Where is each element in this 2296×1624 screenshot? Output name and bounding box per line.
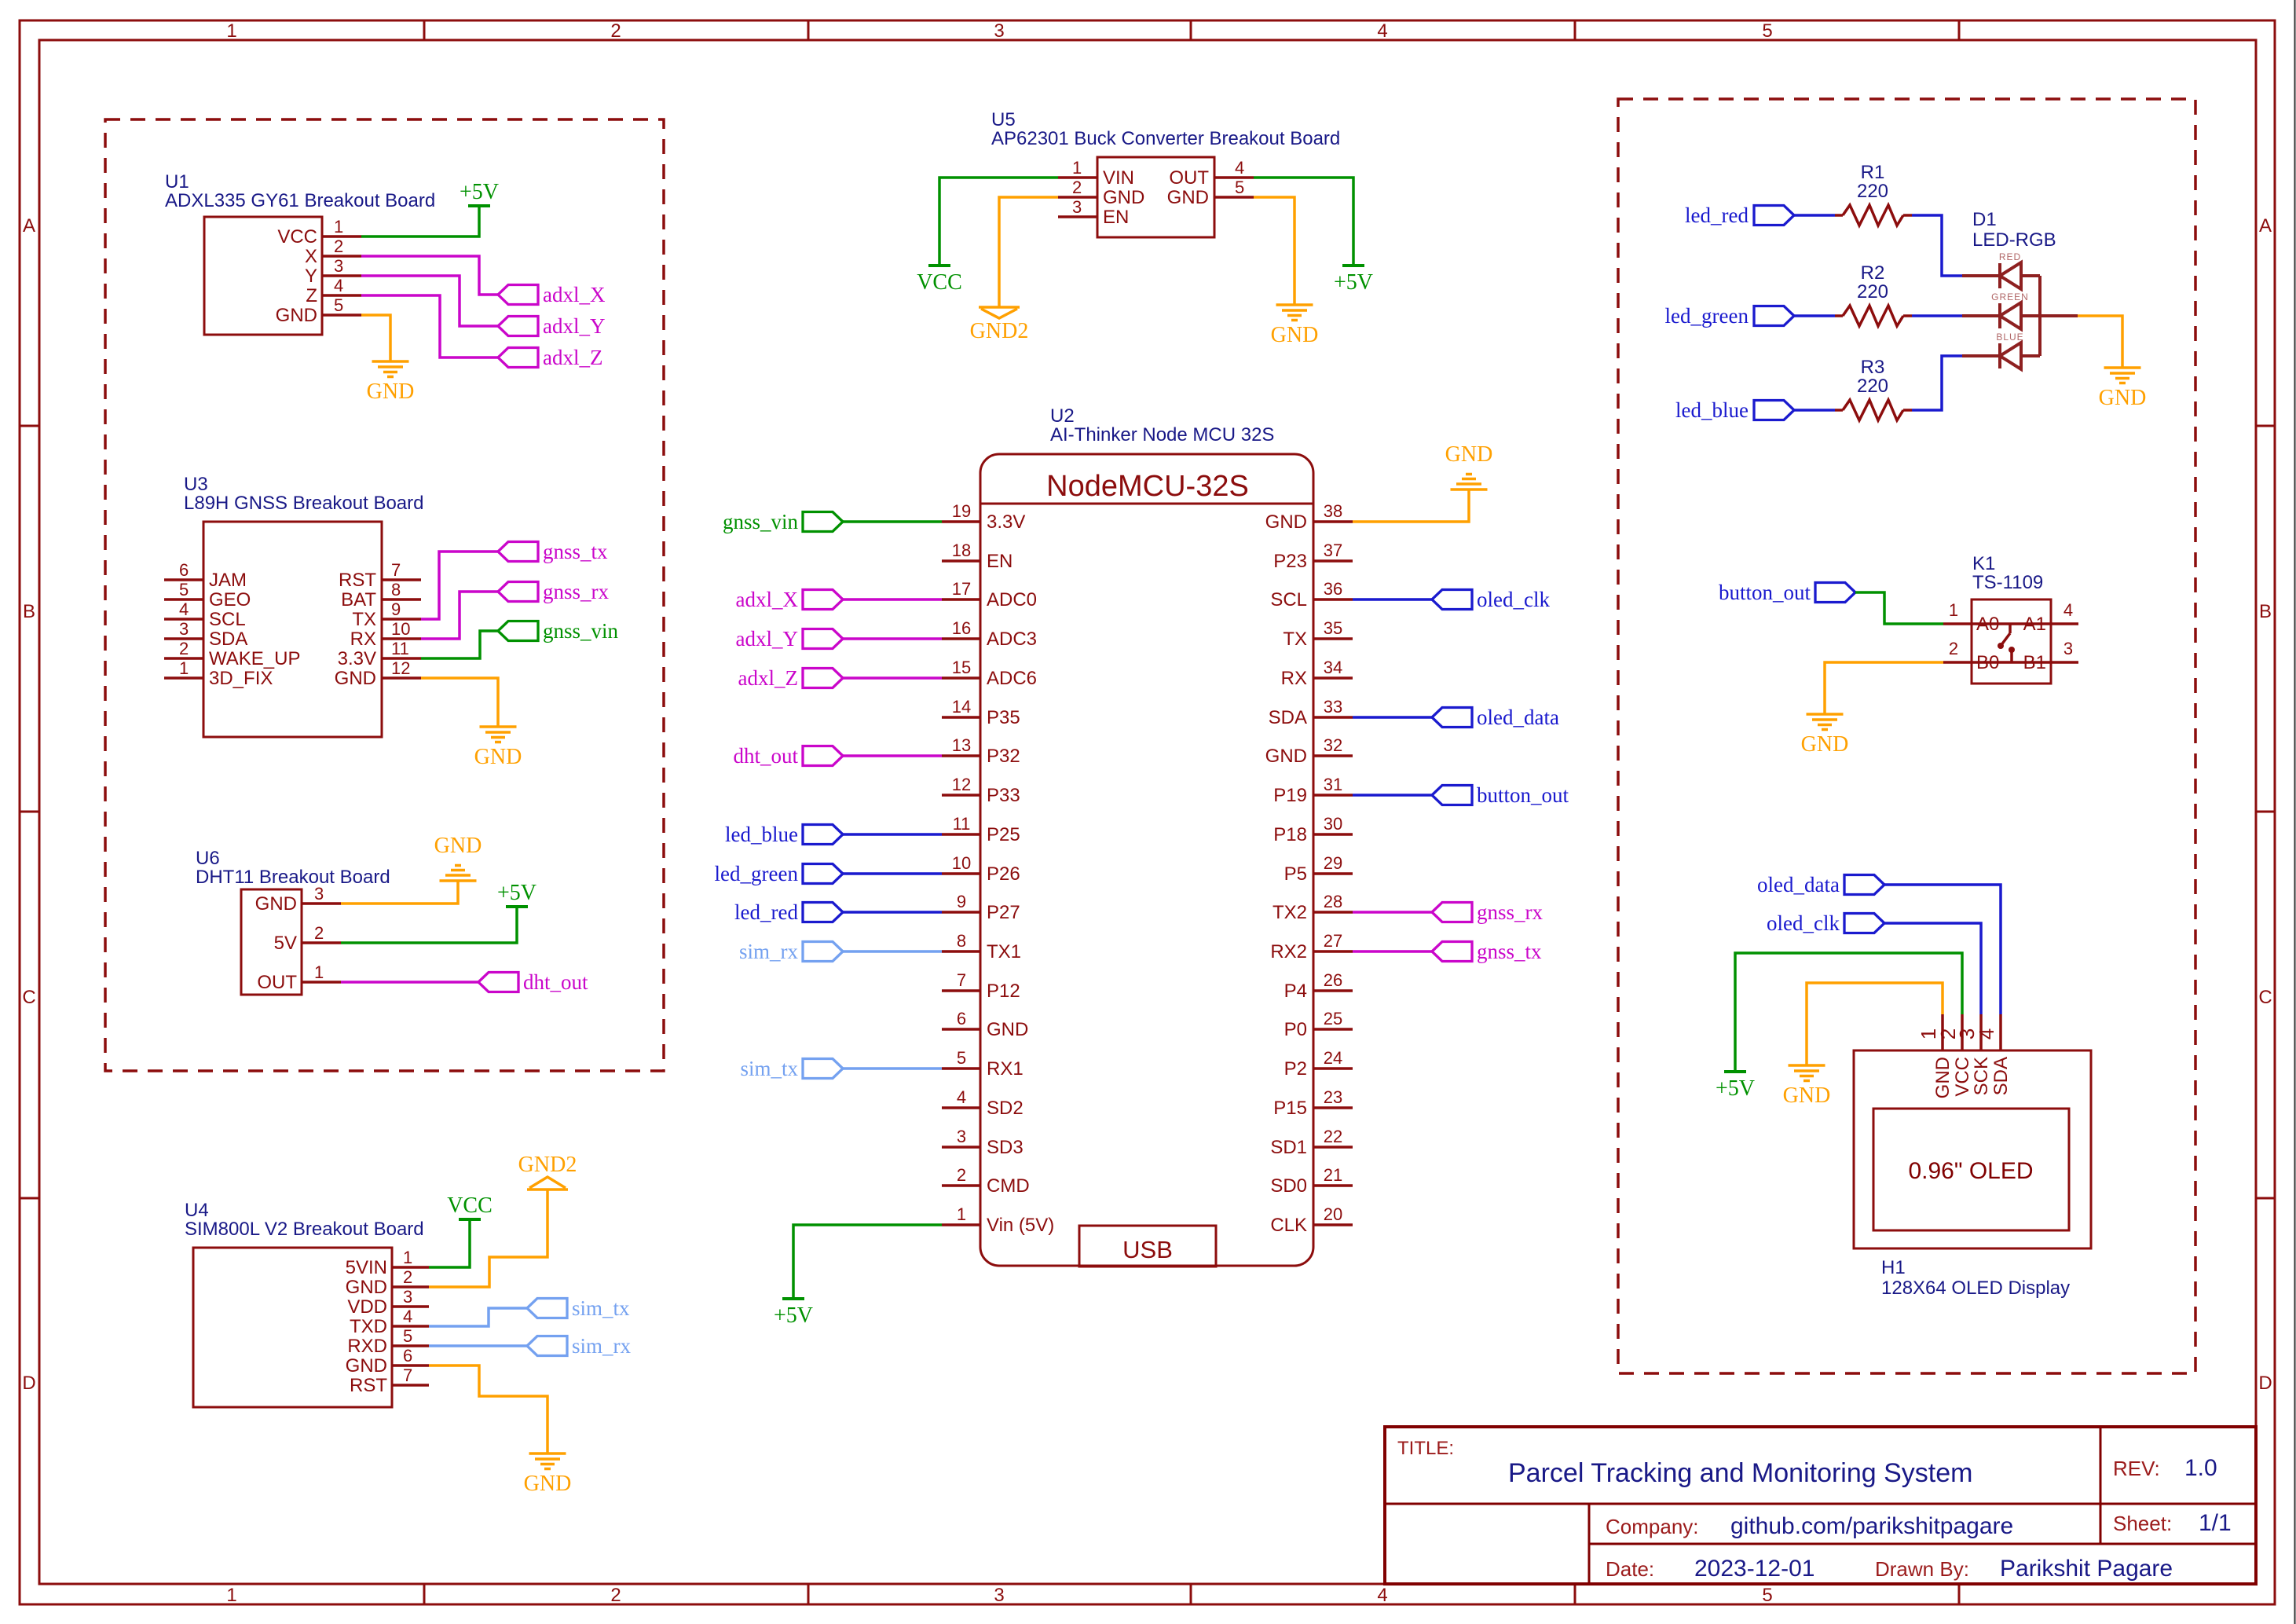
svg-text:BLUE: BLUE xyxy=(1996,332,2023,343)
svg-text:C: C xyxy=(2258,987,2272,1008)
svg-text:TS-1109: TS-1109 xyxy=(1972,572,2043,593)
dashed group box left (sensors) xyxy=(105,119,664,1071)
svg-text:AP62301 Buck Converter Breakou: AP62301 Buck Converter Breakout Board xyxy=(991,128,1340,149)
svg-text:RX1: RX1 xyxy=(987,1058,1023,1080)
svg-text:13: 13 xyxy=(952,735,971,755)
svg-text:VDD: VDD xyxy=(347,1296,387,1318)
wire adxl_Y to U2 xyxy=(843,637,942,640)
svg-text:Parcel Tracking and Monitoring: Parcel Tracking and Monitoring System xyxy=(1508,1458,1972,1488)
svg-text:P12: P12 xyxy=(987,981,1020,1002)
svg-text:led_blue: led_blue xyxy=(725,823,798,846)
svg-text:TX: TX xyxy=(1283,629,1307,650)
wire U3.RX to gnss_rx xyxy=(421,592,498,639)
svg-text:6: 6 xyxy=(957,1009,966,1028)
svg-text:P27: P27 xyxy=(987,902,1020,923)
svg-text:GND: GND xyxy=(987,1019,1028,1040)
svg-text:RXD: RXD xyxy=(347,1336,387,1357)
svg-text:H1: H1 xyxy=(1881,1257,1906,1278)
svg-text:SD2: SD2 xyxy=(987,1098,1023,1119)
svg-text:U5: U5 xyxy=(991,109,1016,130)
net flag adxl_X xyxy=(498,285,538,305)
svg-text:NodeMCU-32S: NodeMCU-32S xyxy=(1046,470,1249,503)
svg-text:4: 4 xyxy=(957,1087,966,1107)
svg-text:32: 32 xyxy=(1324,735,1342,755)
wire U1.X to adxl_X xyxy=(361,256,498,295)
svg-text:31: 31 xyxy=(1324,775,1342,794)
ground GND at K1 xyxy=(1807,713,1844,716)
svg-text:SCL: SCL xyxy=(209,609,246,630)
svg-text:14: 14 xyxy=(952,697,971,717)
svg-text:0.96" OLED: 0.96" OLED xyxy=(1908,1158,2033,1184)
svg-text:Company:: Company: xyxy=(1606,1515,1699,1538)
svg-text:TX1: TX1 xyxy=(987,941,1021,962)
svg-text:3: 3 xyxy=(994,20,1004,42)
svg-text:GND: GND xyxy=(1265,511,1307,533)
wire R2 to D1 xyxy=(1912,314,1962,317)
svg-text:1: 1 xyxy=(179,658,189,678)
svg-text:23: 23 xyxy=(1324,1087,1342,1107)
resistor R3 220 xyxy=(1835,357,1912,420)
svg-text:A: A xyxy=(2259,215,2272,236)
svg-text:TXD: TXD xyxy=(350,1316,387,1337)
svg-text:24: 24 xyxy=(1324,1048,1342,1068)
svg-text:2: 2 xyxy=(610,20,621,42)
svg-text:adxl_X: adxl_X xyxy=(736,588,799,611)
ground GND at U1 xyxy=(372,360,409,363)
svg-text:A0: A0 xyxy=(1976,614,1999,635)
display H1 128X64 OLED xyxy=(1854,1050,2091,1248)
svg-text:SD3: SD3 xyxy=(987,1137,1023,1158)
svg-text:220: 220 xyxy=(1857,181,1888,202)
svg-text:github.com/parikshitpagare: github.com/parikshitpagare xyxy=(1730,1513,2013,1539)
svg-text:U3: U3 xyxy=(184,474,208,495)
svg-text:GND: GND xyxy=(335,668,376,689)
svg-text:P18: P18 xyxy=(1273,824,1307,845)
svg-text:gnss_vin: gnss_vin xyxy=(723,510,799,533)
svg-text:CLK: CLK xyxy=(1270,1215,1307,1236)
svg-text:SD1: SD1 xyxy=(1270,1137,1307,1158)
svg-text:2023-12-01: 2023-12-01 xyxy=(1694,1556,1814,1582)
svg-text:4: 4 xyxy=(2063,600,2073,620)
net flag gnss_tx at U2 right xyxy=(1432,942,1472,962)
svg-text:R1: R1 xyxy=(1861,162,1885,183)
wire U3.GND to ground xyxy=(421,678,498,727)
svg-text:+5V: +5V xyxy=(774,1303,813,1328)
svg-text:C: C xyxy=(22,987,35,1008)
svg-text:OUT: OUT xyxy=(257,972,297,993)
svg-text:7: 7 xyxy=(403,1366,412,1385)
svg-text:220: 220 xyxy=(1857,281,1888,302)
svg-text:led_green: led_green xyxy=(1665,304,1749,328)
wire ground to H1.GND xyxy=(1807,983,1943,1065)
wire U1.Z to adxl_Z xyxy=(361,295,498,357)
svg-text:B1: B1 xyxy=(2023,652,2046,673)
wire led_red to R1 xyxy=(1794,214,1835,217)
svg-text:RED: RED xyxy=(1999,251,2021,262)
net flag adxl_Z xyxy=(498,348,538,368)
wire led_red to U2 xyxy=(843,911,942,914)
ground GND at D1 xyxy=(2104,366,2141,369)
svg-text:GND: GND xyxy=(276,305,317,326)
svg-text:RX: RX xyxy=(1281,668,1307,689)
svg-text:3.3V: 3.3V xyxy=(338,648,376,669)
svg-text:+5V: +5V xyxy=(1716,1076,1755,1101)
svg-text:gnss_rx: gnss_rx xyxy=(1477,900,1543,924)
svg-text:dht_out: dht_out xyxy=(523,970,588,994)
svg-text:gnss_tx: gnss_tx xyxy=(543,540,608,563)
svg-text:ADXL335 GY61 Breakout Board: ADXL335 GY61 Breakout Board xyxy=(165,190,435,211)
svg-text:P5: P5 xyxy=(1284,863,1307,885)
power +5V at U5 (below) xyxy=(1342,264,1364,267)
ground GND2 at U5 (triangle down) xyxy=(979,306,1020,309)
svg-text:P19: P19 xyxy=(1273,785,1307,806)
svg-text:VCC: VCC xyxy=(447,1193,493,1218)
svg-text:BAT: BAT xyxy=(341,589,376,610)
svg-text:GND2: GND2 xyxy=(518,1153,577,1177)
svg-text:21: 21 xyxy=(1324,1165,1342,1185)
svg-text:1: 1 xyxy=(957,1204,966,1224)
wire led_green to R2 xyxy=(1794,314,1835,317)
ground GND at U3 xyxy=(480,725,517,728)
wire U6.GND to ground xyxy=(341,881,458,904)
wire led_blue to U2 xyxy=(843,833,942,836)
svg-text:20: 20 xyxy=(1324,1204,1342,1224)
svg-text:ADC0: ADC0 xyxy=(987,589,1037,610)
svg-text:sim_rx: sim_rx xyxy=(572,1334,632,1358)
svg-text:4: 4 xyxy=(1377,1585,1387,1606)
svg-text:P26: P26 xyxy=(987,863,1020,885)
svg-text:A1: A1 xyxy=(2023,614,2046,635)
svg-text:1: 1 xyxy=(403,1248,412,1267)
svg-text:K1: K1 xyxy=(1972,553,1995,574)
svg-text:2: 2 xyxy=(957,1165,966,1185)
svg-text:P2: P2 xyxy=(1284,1058,1307,1080)
svg-text:1: 1 xyxy=(334,217,343,236)
svg-text:5: 5 xyxy=(179,580,189,599)
wire U2 to oled_clk xyxy=(1353,598,1432,601)
wire U2 to gnss_tx xyxy=(1353,950,1432,953)
net flag led_blue at U2 left xyxy=(803,825,843,845)
svg-text:3: 3 xyxy=(994,1585,1004,1606)
power +5V at H1 (below) xyxy=(1724,1070,1746,1073)
net flag gnss_vin at U2 left xyxy=(803,512,843,532)
svg-text:GND: GND xyxy=(1167,187,1209,208)
wire oled_clk to H1.SCK xyxy=(1884,923,1981,1014)
svg-text:adxl_Z: adxl_Z xyxy=(738,666,798,690)
svg-text:GND: GND xyxy=(434,834,482,858)
svg-text:8: 8 xyxy=(957,931,966,951)
wire U5.GND pin5 to ground xyxy=(1254,197,1294,305)
svg-text:VCC: VCC xyxy=(917,270,962,295)
power +5V at U2 (below) xyxy=(782,1297,804,1300)
svg-text:5: 5 xyxy=(1235,178,1244,197)
svg-text:28: 28 xyxy=(1324,892,1342,911)
svg-text:25: 25 xyxy=(1324,1009,1342,1028)
wire sim_rx to U2 xyxy=(843,950,942,953)
svg-text:3: 3 xyxy=(2063,639,2073,658)
svg-text:3: 3 xyxy=(179,619,189,639)
svg-text:led_red: led_red xyxy=(734,900,798,924)
svg-text:SCK: SCK xyxy=(1971,1057,1992,1095)
svg-text:dht_out: dht_out xyxy=(733,744,798,768)
net flag led_red xyxy=(1754,206,1794,225)
net flag gnss_vin xyxy=(498,621,538,641)
svg-text:X: X xyxy=(305,246,317,267)
svg-text:VIN: VIN xyxy=(1103,167,1134,189)
svg-text:R3: R3 xyxy=(1861,357,1885,378)
net flag dht_out at U2 left xyxy=(803,746,843,766)
svg-text:B: B xyxy=(23,601,35,622)
svg-text:USB: USB xyxy=(1122,1236,1173,1263)
svg-text:10: 10 xyxy=(391,619,410,639)
svg-text:GND: GND xyxy=(346,1355,387,1377)
wire U5.GND pin2 to GND2 xyxy=(999,197,1058,307)
net flag sim_rx at U2 left xyxy=(803,942,843,962)
svg-text:U2: U2 xyxy=(1050,405,1075,427)
svg-text:SDA: SDA xyxy=(1269,707,1307,728)
wire gnss_vin to U2 xyxy=(843,520,942,523)
svg-text:18: 18 xyxy=(952,541,971,560)
svg-text:D1: D1 xyxy=(1972,209,1997,230)
svg-text:4: 4 xyxy=(334,276,343,295)
svg-text:2: 2 xyxy=(403,1267,412,1287)
svg-text:SIM800L V2 Breakout Board: SIM800L V2 Breakout Board xyxy=(185,1219,424,1240)
title block xyxy=(1385,1427,2256,1584)
svg-text:GND: GND xyxy=(524,1472,572,1496)
svg-text:GND: GND xyxy=(1932,1057,1954,1098)
svg-text:128X64 OLED Display: 128X64 OLED Display xyxy=(1881,1278,2070,1299)
svg-text:GREEN: GREEN xyxy=(1991,291,2029,302)
svg-text:3: 3 xyxy=(957,1127,966,1146)
net flag led_green xyxy=(1754,306,1794,326)
power VCC at U4 xyxy=(459,1218,481,1221)
svg-text:REV:: REV: xyxy=(2113,1457,2160,1480)
svg-text:GND: GND xyxy=(1103,187,1144,208)
svg-text:sim_rx: sim_rx xyxy=(739,940,799,963)
wire K1.B0 to ground xyxy=(1825,662,1943,714)
svg-text:3: 3 xyxy=(1072,197,1082,217)
wire U1.Y to adxl_Y xyxy=(361,276,498,326)
svg-text:U1: U1 xyxy=(165,171,189,192)
svg-text:5: 5 xyxy=(1762,1585,1772,1606)
svg-text:26: 26 xyxy=(1324,970,1342,990)
svg-text:17: 17 xyxy=(952,579,971,599)
net flag adxl_Y xyxy=(498,317,538,336)
wire led_green to U2 xyxy=(843,872,942,875)
net flag oled_data at H1 xyxy=(1844,875,1884,895)
svg-text:5V: 5V xyxy=(274,933,297,954)
svg-text:GND2: GND2 xyxy=(970,319,1029,343)
svg-text:3: 3 xyxy=(334,256,343,276)
wire U3.3.3V to gnss_vin xyxy=(421,631,498,658)
svg-text:L89H GNSS Breakout Board: L89H GNSS Breakout Board xyxy=(184,493,424,514)
svg-text:9: 9 xyxy=(391,599,401,619)
wire D1 common to ground xyxy=(2078,316,2122,368)
svg-text:led_green: led_green xyxy=(715,862,799,885)
svg-text:6: 6 xyxy=(179,560,189,580)
net flag gnss_rx xyxy=(498,582,538,602)
svg-text:TITLE:: TITLE: xyxy=(1397,1438,1454,1459)
wire U2 to oled_data xyxy=(1353,716,1432,719)
svg-text:35: 35 xyxy=(1324,618,1342,638)
svg-text:D: D xyxy=(22,1373,35,1394)
svg-text:1: 1 xyxy=(1949,600,1958,620)
svg-text:10: 10 xyxy=(952,853,971,873)
svg-text:B0: B0 xyxy=(1976,652,1999,673)
resistor R2 220 xyxy=(1835,262,1912,326)
svg-text:WAKE_UP: WAKE_UP xyxy=(209,648,300,669)
svg-text:15: 15 xyxy=(952,658,971,677)
svg-text:ADC6: ADC6 xyxy=(987,668,1037,689)
svg-text:ADC3: ADC3 xyxy=(987,629,1037,650)
power +5V at U1 xyxy=(361,206,479,236)
svg-text:adxl_Y: adxl_Y xyxy=(736,627,798,651)
svg-text:4: 4 xyxy=(1377,20,1387,42)
svg-text:4: 4 xyxy=(179,599,189,619)
svg-text:U6: U6 xyxy=(196,848,220,869)
svg-text:11: 11 xyxy=(391,639,409,658)
ground GND at U2 top (inverted) xyxy=(1451,488,1488,491)
svg-text:RST: RST xyxy=(339,570,376,591)
net flag adxl_X at U2 left xyxy=(803,590,843,610)
wire U4.TXD to sim_tx xyxy=(429,1308,527,1326)
net flag button_out at U2 right xyxy=(1432,786,1472,805)
svg-text:OUT: OUT xyxy=(1169,167,1209,189)
svg-text:38: 38 xyxy=(1324,501,1342,521)
svg-text:GND: GND xyxy=(474,745,522,769)
svg-text:adxl_X: adxl_X xyxy=(543,283,606,306)
svg-text:GND: GND xyxy=(2099,386,2147,410)
svg-text:2: 2 xyxy=(1072,178,1082,197)
svg-text:+5V: +5V xyxy=(460,180,499,204)
svg-text:5: 5 xyxy=(957,1048,966,1068)
svg-text:B: B xyxy=(2259,601,2272,622)
svg-text:CMD: CMD xyxy=(987,1175,1030,1197)
svg-text:RST: RST xyxy=(350,1375,387,1396)
svg-text:U4: U4 xyxy=(185,1200,209,1221)
svg-text:+5V: +5V xyxy=(1334,270,1373,295)
svg-text:GND: GND xyxy=(1783,1083,1831,1108)
resistor R1 220 xyxy=(1835,162,1912,225)
svg-text:A: A xyxy=(23,215,35,236)
svg-text:TX: TX xyxy=(352,609,376,630)
wire dht_out to U2 xyxy=(843,754,942,757)
svg-text:SDA: SDA xyxy=(1990,1057,2012,1095)
wire U5.OUT to +5V xyxy=(1254,178,1353,266)
wire U4.GND pin6 to ground xyxy=(429,1366,547,1454)
svg-text:P33: P33 xyxy=(987,785,1020,806)
svg-text:oled_clk: oled_clk xyxy=(1477,588,1550,611)
svg-text:GND: GND xyxy=(1265,746,1307,767)
svg-text:P4: P4 xyxy=(1284,981,1307,1002)
svg-text:button_out: button_out xyxy=(1719,581,1811,604)
svg-text:EN: EN xyxy=(1103,207,1129,228)
svg-text:Drawn By:: Drawn By: xyxy=(1875,1557,1969,1581)
svg-text:oled_data: oled_data xyxy=(1757,873,1840,896)
net flag oled_clk at H1 xyxy=(1844,914,1884,933)
svg-text:3D_FIX: 3D_FIX xyxy=(209,668,273,689)
svg-text:2: 2 xyxy=(610,1585,621,1606)
net flag oled_data at U2 right xyxy=(1432,708,1472,728)
net flag gnss_rx at U2 right xyxy=(1432,903,1472,922)
svg-text:4: 4 xyxy=(1235,158,1244,178)
svg-text:5VIN: 5VIN xyxy=(346,1257,387,1278)
svg-text:P25: P25 xyxy=(987,824,1020,845)
svg-text:+5V: +5V xyxy=(497,881,536,905)
net flag led_green at U2 left xyxy=(803,864,843,884)
net flag gnss_tx xyxy=(498,542,538,562)
svg-text:5: 5 xyxy=(1762,20,1772,42)
wire U2.GND pin38 to ground xyxy=(1353,489,1469,522)
svg-text:2: 2 xyxy=(334,236,343,256)
dashed group box right (indicators) xyxy=(1618,99,2195,1373)
svg-text:36: 36 xyxy=(1324,579,1342,599)
svg-text:adxl_Z: adxl_Z xyxy=(543,346,602,369)
svg-text:1: 1 xyxy=(226,1585,236,1606)
svg-text:30: 30 xyxy=(1324,814,1342,834)
wire R1 to D1 xyxy=(1912,215,1962,276)
svg-text:7: 7 xyxy=(957,970,966,990)
svg-text:P0: P0 xyxy=(1284,1019,1307,1040)
wire +5V to H1.VCC xyxy=(1735,953,1962,1072)
svg-text:SDA: SDA xyxy=(209,629,247,650)
wire U1.GND to ground xyxy=(361,315,390,361)
ground GND at U5 xyxy=(1276,303,1313,306)
svg-text:AI-Thinker Node MCU 32S: AI-Thinker Node MCU 32S xyxy=(1050,424,1274,445)
svg-text:P32: P32 xyxy=(987,746,1020,767)
net flag led_red at U2 left xyxy=(803,903,843,922)
svg-text:Z: Z xyxy=(306,285,317,306)
svg-text:4: 4 xyxy=(1975,1028,1998,1039)
svg-text:16: 16 xyxy=(952,618,971,638)
svg-text:TX2: TX2 xyxy=(1273,902,1307,923)
wire U2 to button_out xyxy=(1353,794,1432,797)
svg-text:led_blue: led_blue xyxy=(1675,398,1749,422)
svg-text:SD0: SD0 xyxy=(1270,1175,1307,1197)
svg-text:22: 22 xyxy=(1324,1127,1342,1146)
net flag led_blue xyxy=(1754,401,1794,420)
svg-text:GND: GND xyxy=(1271,323,1319,347)
svg-text:JAM: JAM xyxy=(209,570,247,591)
wire adxl_X to U2 xyxy=(843,598,942,601)
svg-text:sim_tx: sim_tx xyxy=(740,1057,798,1080)
net flag sim_rx xyxy=(527,1336,567,1356)
svg-text:P23: P23 xyxy=(1273,551,1307,572)
wire button_out to K1.A0 xyxy=(1855,592,1943,624)
svg-text:1/1: 1/1 xyxy=(2199,1510,2232,1536)
svg-text:Y: Y xyxy=(305,266,317,287)
svg-text:3.3V: 3.3V xyxy=(987,511,1025,533)
svg-text:2: 2 xyxy=(1949,639,1958,658)
net flag sim_tx xyxy=(527,1299,567,1318)
wire U4.RXD to sim_rx xyxy=(429,1344,527,1347)
svg-text:SCL: SCL xyxy=(1270,589,1307,610)
svg-text:R2: R2 xyxy=(1861,262,1885,284)
svg-text:19: 19 xyxy=(952,501,971,521)
ground GND at U6 (inverted) xyxy=(440,879,477,882)
svg-text:RX2: RX2 xyxy=(1270,941,1307,962)
svg-text:P15: P15 xyxy=(1273,1098,1307,1119)
svg-text:Sheet:: Sheet: xyxy=(2113,1512,2172,1535)
svg-text:D: D xyxy=(2258,1373,2272,1394)
svg-text:RX: RX xyxy=(350,629,376,650)
wire U2 to gnss_rx xyxy=(1353,911,1432,914)
wire U2.Vin(5V) to +5V xyxy=(793,1225,942,1299)
wire sim_tx to U2 xyxy=(843,1067,942,1070)
svg-text:gnss_rx: gnss_rx xyxy=(543,580,610,603)
svg-text:gnss_vin: gnss_vin xyxy=(543,619,619,643)
svg-text:GND: GND xyxy=(1445,442,1493,467)
